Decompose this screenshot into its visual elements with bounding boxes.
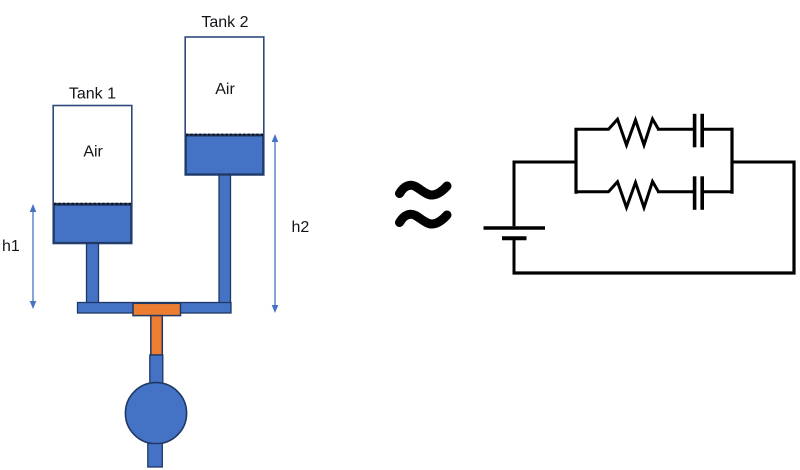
tank T2 water [186,135,263,175]
wire battery top to node A [513,161,516,227]
manifold pipe (horizontal) [78,303,232,314]
battery short plate [502,236,527,240]
approx-equal symbol [400,185,448,224]
pipe P2 from tank T2 [219,175,231,304]
wire bottom return [513,271,796,274]
svg-text:h2: h2 [292,219,310,236]
pump inlet pipe [150,355,163,385]
valve V1 (orange block) [133,303,181,315]
svg-text:Air: Air [83,144,103,161]
svg-text:h1: h1 [2,238,20,255]
wire R1 to C1 [657,128,693,131]
dimension arrow h1 [30,204,37,309]
tank T1 vessel [53,106,132,244]
pump outlet pipe [148,444,163,468]
dimension arrow h2 [272,134,279,313]
wire left vertical of parallel box [574,128,577,194]
wire C1 to box right [704,128,734,131]
wire right vertical of parallel box [730,128,733,194]
svg-text:Air: Air [215,81,235,98]
battery long plate [484,226,546,230]
wire battery bottom to return [513,238,516,274]
svg-text:Tank 2: Tank 2 [201,14,248,31]
valve outlet pipe (orange) [151,316,163,355]
capacitor C2 [695,176,703,210]
wire node A horizontal to box left [513,161,578,164]
tank T2 vessel [185,37,264,175]
resistor R1 [577,119,659,145]
pipe P1 from tank T1 [87,244,99,304]
wire right rail vertical [792,161,795,275]
resistor R2 [577,182,659,208]
battery B1 [484,228,546,238]
wire R2 to C2 [657,190,693,193]
tank T1 water [54,204,131,243]
capacitor C1 [695,114,703,148]
wire C2 to box right [704,190,734,193]
pump PU1 (circle) [125,383,186,444]
svg-text:Tank 1: Tank 1 [69,86,116,103]
wire node B horizontal to right rail [731,161,796,164]
